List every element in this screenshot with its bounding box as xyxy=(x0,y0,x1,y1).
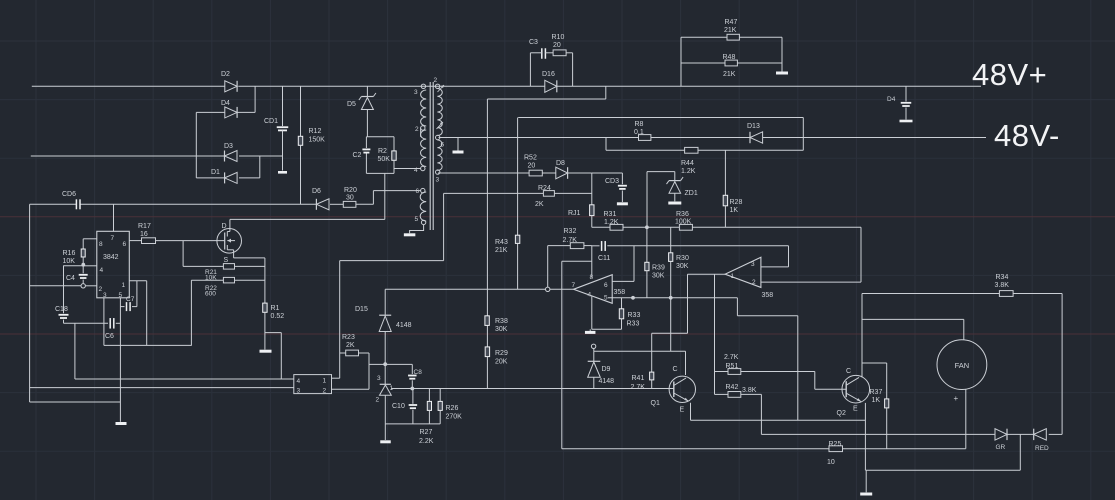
wire pin1-vert xyxy=(652,274,688,372)
svg-text:R47: R47 xyxy=(725,19,738,26)
junction p5b xyxy=(669,296,673,300)
svg-text:4: 4 xyxy=(297,378,301,385)
wire D13-bypass xyxy=(518,118,803,151)
resistor R39 xyxy=(645,227,665,297)
wire pin3 xyxy=(761,266,789,268)
ground opampA xyxy=(585,331,596,334)
wire sense-vertical xyxy=(486,99,488,389)
svg-text:C: C xyxy=(846,368,851,375)
wire bottom bus xyxy=(562,448,966,450)
svg-text:R8: R8 xyxy=(635,121,644,128)
svg-text:7: 7 xyxy=(111,235,115,242)
wire Q2-E xyxy=(864,403,866,470)
svg-text:ZD1: ZD1 xyxy=(685,190,698,197)
resistor R24 xyxy=(535,185,554,208)
diode RED xyxy=(1034,429,1049,452)
svg-text:R41: R41 xyxy=(632,375,645,382)
svg-text:0.52: 0.52 xyxy=(271,313,285,320)
wire pin5-down xyxy=(119,298,121,422)
svg-text:3: 3 xyxy=(751,261,755,268)
wire AC bus2 xyxy=(31,155,283,157)
wire source row xyxy=(234,258,265,303)
motor FAN xyxy=(937,340,987,390)
wire conn-pin1 xyxy=(332,261,340,379)
svg-text:C6: C6 xyxy=(105,333,114,340)
svg-text:1: 1 xyxy=(122,282,126,289)
svg-text:E: E xyxy=(680,407,685,414)
svg-text:48V+: 48V+ xyxy=(972,57,1047,92)
svg-text:C7: C7 xyxy=(126,296,135,303)
svg-text:2K: 2K xyxy=(535,201,544,208)
wire pin2 xyxy=(761,227,861,282)
node C4-pin2 xyxy=(81,284,85,288)
svg-text:8: 8 xyxy=(99,241,103,248)
wire R47-net xyxy=(681,37,782,86)
svg-text:R28: R28 xyxy=(730,199,743,206)
wire Q2-C xyxy=(861,294,863,378)
diode D3 xyxy=(224,143,237,162)
wire pin1-div xyxy=(714,274,716,394)
capacitor C2 xyxy=(353,137,371,174)
wire fan bottom xyxy=(954,389,966,449)
diode D4 xyxy=(196,100,255,118)
svg-text:R34: R34 xyxy=(996,274,1009,281)
svg-text:5: 5 xyxy=(604,295,608,302)
svg-text:20: 20 xyxy=(553,42,561,49)
diode D2 xyxy=(221,71,237,92)
resistor R48 xyxy=(681,54,782,78)
connector U2 xyxy=(294,375,332,395)
diode D8 xyxy=(556,160,592,179)
diode D6 xyxy=(312,188,329,210)
wire R34 row xyxy=(862,293,1062,295)
resistor R29 xyxy=(485,347,508,366)
svg-text:R31: R31 xyxy=(604,211,617,218)
wire led return xyxy=(865,434,1020,470)
wire pin6 xyxy=(612,246,634,282)
wire D15-vert xyxy=(384,289,386,315)
svg-text:Q1: Q1 xyxy=(651,400,660,407)
svg-text:R20: R20 xyxy=(344,187,357,194)
svg-text:150K: 150K xyxy=(309,137,326,144)
svg-text:21K: 21K xyxy=(723,71,736,78)
diode D16 xyxy=(542,71,557,92)
resistor R37 xyxy=(862,363,889,449)
svg-text:RED: RED xyxy=(1035,445,1049,452)
svg-text:R27: R27 xyxy=(420,429,433,436)
resistor R38 xyxy=(485,316,508,333)
wire pin1 row xyxy=(688,273,726,275)
diode D15 xyxy=(355,306,412,364)
svg-text:3: 3 xyxy=(436,177,440,184)
svg-text:4148: 4148 xyxy=(599,378,615,385)
svg-text:RJ1: RJ1 xyxy=(568,210,581,217)
wire R24 row xyxy=(444,192,592,194)
zener ZD1 xyxy=(667,177,698,201)
wire opto row2 xyxy=(30,387,294,389)
ground secondary xyxy=(453,138,464,153)
diode D9 xyxy=(588,351,614,388)
wire out bus xyxy=(385,288,573,290)
wire pin8 xyxy=(83,238,97,240)
svg-text:+: + xyxy=(954,394,959,403)
diode D5 xyxy=(347,86,376,137)
svg-text:R38: R38 xyxy=(495,318,508,325)
svg-text:6: 6 xyxy=(416,188,420,195)
resistor R22 xyxy=(191,277,265,345)
svg-text:21K: 21K xyxy=(724,27,737,34)
wire left rail xyxy=(30,204,121,402)
transistor Q1 xyxy=(651,366,696,414)
capacitor C10 xyxy=(392,389,417,424)
svg-text:0.1: 0.1 xyxy=(634,129,644,136)
node D9-top xyxy=(591,344,595,351)
svg-text:2K: 2K xyxy=(346,342,355,349)
capacitor D4 xyxy=(887,86,913,121)
resistor R27 xyxy=(419,389,434,446)
node out xyxy=(546,287,550,291)
op-amp U1 3842 xyxy=(97,231,130,299)
capacitor C3 xyxy=(529,39,553,59)
svg-text:D4: D4 xyxy=(887,96,896,103)
capacitor C4 xyxy=(66,266,88,284)
wire CD3 feed xyxy=(592,173,623,184)
resistor R51 xyxy=(715,354,847,389)
svg-text:7: 7 xyxy=(572,282,576,289)
svg-text:C10: C10 xyxy=(392,403,405,410)
svg-text:C4: C4 xyxy=(66,275,75,282)
resistor R31 xyxy=(604,211,624,230)
svg-text:FAN: FAN xyxy=(955,361,970,370)
svg-text:R42: R42 xyxy=(726,384,739,391)
svg-text:C: C xyxy=(673,366,678,373)
resistor R8 xyxy=(634,121,651,140)
svg-text:C2: C2 xyxy=(353,152,362,159)
wire pin3-down xyxy=(103,298,105,346)
wire bridge-left xyxy=(195,112,197,177)
svg-text:R17: R17 xyxy=(138,223,151,230)
svg-text:D5: D5 xyxy=(347,101,356,108)
svg-text:4: 4 xyxy=(100,267,104,274)
capacitor C18 xyxy=(55,266,69,324)
svg-text:R10: R10 xyxy=(552,34,565,41)
wire R27 row xyxy=(385,424,440,440)
resistor R33 xyxy=(619,298,640,330)
svg-text:2: 2 xyxy=(323,388,327,395)
svg-text:20K: 20K xyxy=(495,359,508,366)
resistor RJ1 xyxy=(568,173,594,227)
svg-text:10K: 10K xyxy=(63,258,76,265)
svg-text:6: 6 xyxy=(441,142,445,149)
svg-text:D4: D4 xyxy=(221,100,230,107)
svg-text:D15: D15 xyxy=(355,306,368,313)
svg-text:3.8K: 3.8K xyxy=(995,282,1010,289)
svg-text:2.2K: 2.2K xyxy=(419,438,434,445)
svg-text:D2: D2 xyxy=(221,71,230,78)
svg-text:48V-: 48V- xyxy=(994,118,1060,153)
junction D15 xyxy=(383,362,387,366)
resistor R21 xyxy=(183,264,265,282)
capacitor C11 xyxy=(592,241,634,262)
svg-text:1K: 1K xyxy=(872,397,881,404)
svg-text:1: 1 xyxy=(323,378,327,385)
diode D1 xyxy=(196,169,259,183)
svg-text:R37: R37 xyxy=(870,389,883,396)
diode D13 xyxy=(747,123,763,143)
svg-text:C11: C11 xyxy=(598,255,610,262)
wire pin2-stub xyxy=(420,128,422,137)
capacitor CD1 xyxy=(264,86,288,172)
svg-text:D9: D9 xyxy=(602,366,611,373)
capacitor CD6 xyxy=(62,191,80,209)
svg-text:Q2: Q2 xyxy=(837,410,846,417)
svg-text:4148: 4148 xyxy=(396,322,412,329)
capacitor C7 xyxy=(120,281,136,311)
ground CD3 xyxy=(617,202,628,205)
diode GR xyxy=(995,429,1007,451)
op-amp U3B 358 xyxy=(725,257,773,299)
svg-text:3: 3 xyxy=(414,89,418,96)
wire pin2 xyxy=(30,285,97,287)
wire stair1 xyxy=(737,298,797,420)
resistor R16 xyxy=(63,239,86,265)
svg-text:R25: R25 xyxy=(829,441,842,448)
svg-text:R24: R24 xyxy=(538,185,551,192)
resistor R10 xyxy=(552,34,573,56)
svg-text:R44: R44 xyxy=(681,160,694,167)
resistor R1 xyxy=(263,303,285,349)
wire pin4 xyxy=(63,265,97,267)
ground pin5 xyxy=(116,422,127,425)
resistor R30 xyxy=(669,227,689,297)
wire base row xyxy=(391,388,674,390)
svg-text:2.7K: 2.7K xyxy=(563,237,578,244)
op-amp U3A 358 xyxy=(572,274,626,303)
svg-text:D13: D13 xyxy=(747,123,760,130)
junction p5a xyxy=(631,296,635,300)
svg-text:3: 3 xyxy=(297,388,301,395)
svg-text:D8: D8 xyxy=(556,160,565,167)
wire led-vert xyxy=(1061,294,1063,435)
transistor Q-MOS xyxy=(217,219,242,264)
capacitor CD3 xyxy=(605,178,627,202)
wire pin8-L xyxy=(562,261,592,448)
wire 48V- rail xyxy=(439,137,987,139)
wire R52 row xyxy=(438,172,556,174)
svg-text:R48: R48 xyxy=(723,54,736,61)
svg-text:D3: D3 xyxy=(224,143,233,150)
wire bus1-tap xyxy=(487,86,605,99)
svg-text:E: E xyxy=(853,406,858,413)
svg-text:D: D xyxy=(222,223,227,230)
wire snubber2 xyxy=(530,53,572,87)
wire VCC row xyxy=(30,191,421,205)
junction C8-base xyxy=(410,387,414,391)
wire bottom row xyxy=(104,344,192,346)
svg-text:30: 30 xyxy=(346,195,354,202)
wire q1c row xyxy=(594,298,686,375)
svg-text:2.7K: 2.7K xyxy=(724,354,739,361)
wire pin4-gnd xyxy=(590,296,621,331)
wire pin1 xyxy=(129,281,146,346)
capacitor C8 xyxy=(408,364,422,388)
svg-text:1.2K: 1.2K xyxy=(604,219,619,226)
wire toB xyxy=(634,246,789,267)
svg-text:S: S xyxy=(224,257,229,264)
ground main xyxy=(860,470,872,494)
svg-text:30K: 30K xyxy=(676,263,689,270)
svg-text:358: 358 xyxy=(762,292,774,299)
wire conn-pin2 xyxy=(332,353,370,389)
ground R47 xyxy=(776,72,788,75)
resistor R32 xyxy=(548,228,592,249)
wire gate-R21 tap xyxy=(182,241,184,267)
wire R32-drop xyxy=(547,246,549,288)
svg-text:16: 16 xyxy=(140,231,148,238)
wire pin7 xyxy=(113,204,115,231)
resistor R25 xyxy=(827,441,843,466)
wire fan top xyxy=(862,319,964,340)
svg-text:2: 2 xyxy=(434,77,438,84)
label 48V+ xyxy=(972,57,1047,92)
svg-text:CD1: CD1 xyxy=(264,118,278,125)
resistor R23 xyxy=(340,334,369,356)
thyristor Q3 xyxy=(376,364,394,424)
svg-text:5: 5 xyxy=(415,216,419,223)
label 48V- xyxy=(994,118,1060,153)
wire snubber-to-drain xyxy=(230,173,385,219)
transistor Q2 xyxy=(837,368,870,417)
wire pin5 row xyxy=(608,297,737,299)
wire fb row xyxy=(592,226,861,228)
resistor R43 xyxy=(495,235,520,289)
svg-text:GR: GR xyxy=(996,444,1006,451)
svg-text:R2: R2 xyxy=(378,148,387,155)
svg-text:D16: D16 xyxy=(542,71,555,78)
svg-text:1.2K: 1.2K xyxy=(681,168,696,175)
wire ZD1 row xyxy=(647,172,675,181)
wire bridge-right xyxy=(259,156,261,178)
resistor R47 xyxy=(724,19,739,40)
svg-text:30K: 30K xyxy=(495,326,508,333)
resistor R20 xyxy=(343,187,357,207)
transformer T1 xyxy=(414,77,445,230)
svg-text:R39: R39 xyxy=(652,265,665,272)
wire R23 feed xyxy=(340,193,444,260)
svg-text:R23: R23 xyxy=(342,334,355,341)
svg-text:D6: D6 xyxy=(312,188,321,195)
svg-text:R52: R52 xyxy=(524,155,537,162)
svg-text:1: 1 xyxy=(731,273,735,280)
svg-text:R12: R12 xyxy=(309,128,322,135)
svg-text:21K: 21K xyxy=(495,247,508,254)
svg-text:C18: C18 xyxy=(55,306,68,313)
junction R16-C4 xyxy=(81,263,85,267)
svg-text:R32: R32 xyxy=(564,228,577,235)
svg-text:2: 2 xyxy=(99,286,103,293)
wire R23-D15 link xyxy=(369,363,412,365)
svg-text:R16: R16 xyxy=(63,250,76,257)
wire R43-vertical xyxy=(517,118,519,236)
svg-text:1K: 1K xyxy=(730,207,739,214)
svg-text:100K: 100K xyxy=(675,219,692,226)
wire pin5-ground xyxy=(404,225,424,235)
svg-text:6: 6 xyxy=(604,282,608,289)
wire ZD1-vert xyxy=(646,172,648,228)
svg-text:4: 4 xyxy=(588,292,592,299)
svg-text:270K: 270K xyxy=(446,414,463,421)
ground Q3 xyxy=(380,440,391,443)
resistor R26 xyxy=(438,389,462,424)
wire snubber box xyxy=(366,137,394,174)
wire R1-tap xyxy=(265,333,281,379)
svg-text:3842: 3842 xyxy=(103,254,119,261)
wire led row xyxy=(761,433,1062,435)
resistor R41 xyxy=(631,372,654,391)
svg-text:R33: R33 xyxy=(627,321,640,328)
resistor R52 xyxy=(524,155,542,176)
wire AC bus1 xyxy=(32,85,981,87)
resistor R2 xyxy=(378,137,397,174)
wire pin4-stub xyxy=(394,168,421,170)
svg-text:10: 10 xyxy=(827,459,835,466)
resistor R36 xyxy=(675,211,692,230)
svg-text:3.8K: 3.8K xyxy=(742,387,757,394)
resistor R28 xyxy=(723,150,742,227)
wire opto row1 xyxy=(75,323,294,379)
svg-text:R26: R26 xyxy=(446,405,459,412)
svg-text:2.7K: 2.7K xyxy=(631,384,646,391)
svg-text:R43: R43 xyxy=(495,239,508,246)
svg-text:R51: R51 xyxy=(726,363,739,370)
resistor R42 xyxy=(715,384,762,434)
resistor R17 xyxy=(129,223,224,244)
svg-text:2: 2 xyxy=(376,397,380,404)
svg-text:R36: R36 xyxy=(676,211,689,218)
resistor R34 xyxy=(995,274,1014,296)
svg-text:R1: R1 xyxy=(271,305,280,312)
svg-text:600: 600 xyxy=(205,291,216,298)
capacitor C6 xyxy=(64,318,121,340)
svg-text:R29: R29 xyxy=(495,350,508,357)
svg-text:30K: 30K xyxy=(652,273,665,280)
svg-text:R30: R30 xyxy=(676,255,689,262)
wire Q1-E xyxy=(691,403,866,421)
junction fb xyxy=(645,225,649,229)
ground R1 xyxy=(260,350,272,353)
resistor R12 xyxy=(298,86,325,204)
svg-text:20: 20 xyxy=(528,163,536,170)
svg-text:358: 358 xyxy=(614,289,626,296)
ground ZD1 xyxy=(668,202,681,205)
svg-text:CD6: CD6 xyxy=(62,191,76,198)
wire D4-to-bus1 xyxy=(254,86,256,112)
svg-text:50K: 50K xyxy=(378,156,391,163)
svg-text:6: 6 xyxy=(123,241,127,248)
svg-text:C3: C3 xyxy=(529,39,538,46)
svg-text:2: 2 xyxy=(752,279,756,286)
resistor R44 xyxy=(681,147,698,175)
svg-text:R33: R33 xyxy=(628,312,641,319)
svg-text:2: 2 xyxy=(415,126,419,133)
svg-text:CD3: CD3 xyxy=(605,178,619,185)
wire pin8-vert xyxy=(591,246,593,278)
svg-text:3: 3 xyxy=(377,375,381,382)
svg-text:D1: D1 xyxy=(211,169,220,176)
